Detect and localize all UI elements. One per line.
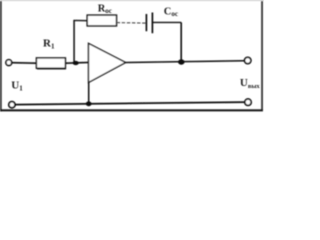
wire capacitor to corner [152,21,181,23]
resistor Roc [87,15,116,26]
border frame bottom [0,109,263,111]
wire R1 to op-amp input [65,61,89,64]
op-amp U1 triangle [89,43,126,82]
wire feedback vertical left [73,20,75,63]
wire feedback horizontal to Roc [73,19,87,21]
output terminal circle right [245,57,251,63]
terminal circle bottom left [9,102,15,108]
capacitor Coc right plate [151,13,153,34]
junction node inverting input [73,61,79,65]
wire Roc to capacitor [117,22,146,25]
junction node bottom rail [86,101,92,106]
border frame right [261,0,263,111]
resistor R1 thick bottom edge [37,68,66,70]
junction node output [178,59,185,64]
resistor R1 [36,58,65,68]
wire op-amp output [126,61,245,63]
wire input to R1 [12,62,37,65]
capacitor Coc left plate [145,14,147,31]
wire non-inverting input to bottom rail [88,83,90,104]
border frame left [0,0,2,111]
input terminal circle left [6,60,12,66]
wire feedback vertical right [180,22,182,62]
terminal circle bottom right [245,99,251,105]
border frame top [0,0,264,1]
wire bottom rail [15,102,244,105]
